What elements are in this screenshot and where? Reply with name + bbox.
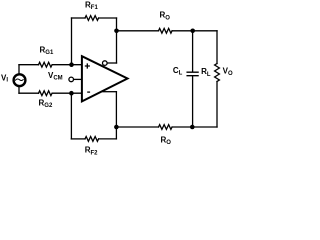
svg-text:RG1: RG1 — [40, 45, 54, 56]
resistor RG1 — [39, 62, 53, 67]
svg-text:VI: VI — [1, 74, 8, 84]
wire RF1 left leg — [71, 18, 73, 65]
wire source bottom leg — [18, 87, 20, 93]
svg-text:RF1: RF1 — [85, 1, 98, 11]
wire RF2 bottom right segment — [99, 138, 116, 140]
op-amp output bubble — [103, 61, 108, 66]
wire RL bottom to corner — [216, 82, 218, 128]
resistor RO bottom — [159, 125, 173, 130]
resistor RF2 — [85, 137, 99, 142]
wire bottom rail RO to corner — [173, 126, 218, 128]
svg-text:RO: RO — [160, 11, 171, 22]
wire bottom output horizontal — [103, 91, 116, 93]
node junction dot top CL — [190, 29, 195, 34]
op-amp plus input sign — [85, 63, 90, 68]
wire RG2 to op-amp minus input — [53, 92, 82, 94]
wire RF1 top right segment — [99, 17, 117, 19]
wire RF1 top left segment — [72, 17, 86, 19]
svg-text:VO: VO — [223, 67, 233, 78]
svg-text:RG2: RG2 — [39, 99, 53, 110]
wire CL bottom branch — [192, 76, 194, 127]
resistor RF1 — [85, 16, 99, 21]
wire top rail to RO — [117, 30, 159, 32]
wire RF2 bottom left segment — [71, 138, 85, 140]
svg-text:CL: CL — [173, 66, 183, 77]
wire source top leg — [18, 65, 20, 74]
capacitor CL — [187, 72, 198, 76]
resistor RL — [215, 64, 220, 82]
wire top rail RO to corner — [173, 30, 218, 32]
wire bottom rail from node to RO — [116, 126, 158, 128]
wire RF1 right leg down to output node — [116, 18, 118, 63]
wire from output bubble to node — [107, 62, 116, 64]
wire top input from source to RG1 — [19, 64, 39, 66]
svg-text:RF2: RF2 — [85, 146, 98, 157]
voltage source VI — [14, 74, 26, 86]
resistor RG2 — [39, 91, 53, 96]
svg-text:RL: RL — [201, 67, 211, 78]
wire right corner down to RL — [216, 31, 218, 64]
node junction dot top left (RG1/RF1) — [69, 62, 74, 67]
wire CL top branch — [192, 31, 194, 72]
svg-text:VCM: VCM — [48, 71, 63, 82]
resistor RO top — [159, 28, 173, 33]
op-amp minus input sign — [87, 91, 90, 93]
wire bottom output vertical to node — [115, 92, 117, 139]
VCM terminal circle — [69, 77, 74, 82]
svg-text:RO: RO — [161, 135, 172, 146]
node junction dot top output — [114, 29, 119, 34]
sine symbol inside source — [15, 79, 23, 81]
wire bottom input from source to RG2 — [19, 92, 39, 94]
node junction dot bottom CL — [190, 125, 195, 130]
wire RG1 to op-amp plus input — [53, 64, 82, 66]
wire RF2 left leg — [70, 93, 72, 139]
wire VCM terminal to op-amp — [74, 78, 81, 80]
op-amp U1 triangle — [82, 56, 128, 101]
node junction dot bottom output — [114, 125, 119, 130]
node junction dot bottom left (RG2/RF2) — [69, 91, 74, 96]
